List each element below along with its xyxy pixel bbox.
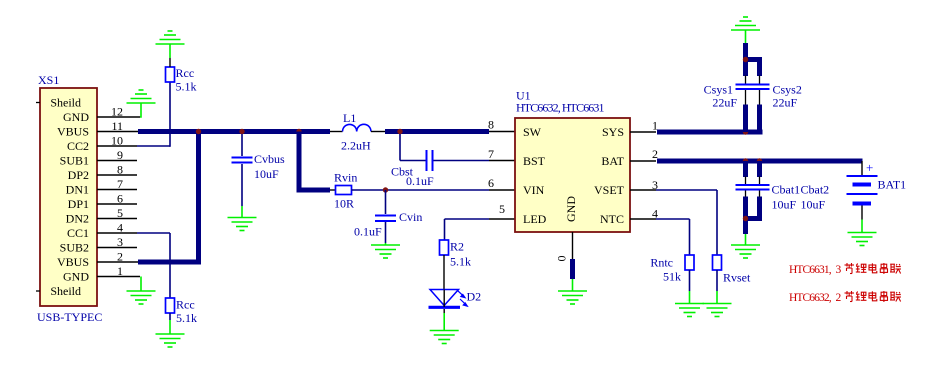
svg-text:Cvbus: Cvbus (254, 152, 285, 166)
ground chip GND (558, 291, 587, 304)
resistor Rvset (713, 255, 722, 270)
wire Rvin left lead (330, 189, 336, 191)
wire VSET net (656, 190, 717, 255)
wire D2 to ground (443, 309, 445, 331)
wire Cbat ground stem (745, 234, 747, 245)
note HTC6631 3-cell (red) (789, 263, 901, 276)
ground Cbat (731, 245, 760, 258)
capacitor Cbst (427, 150, 433, 171)
wire chip GND pin (572, 232, 574, 279)
wire Cbat top stubs (thick) (746, 161, 760, 177)
label 22uF left (712, 96, 737, 110)
label Rvin (334, 171, 357, 185)
resistor Rvin (336, 186, 352, 195)
svg-text:10: 10 (111, 134, 123, 148)
label GND pin (rotated) (564, 196, 578, 222)
label 51k (663, 270, 681, 284)
junction VBUS/VIN branch (296, 129, 301, 134)
svg-text:22uF: 22uF (773, 96, 798, 110)
svg-text:VIN: VIN (523, 183, 545, 197)
label 22uF right (773, 96, 798, 110)
svg-text:5.1k: 5.1k (176, 311, 197, 325)
label 5.1k bottom (176, 311, 197, 325)
svg-text:BST: BST (523, 154, 546, 168)
capacitor Cvbus (232, 158, 253, 163)
label Cbat1 Cbat2 (772, 183, 830, 197)
svg-text:L1: L1 (343, 111, 356, 125)
junction VBUS/pin2 riser (196, 129, 201, 134)
wire Rcc1 to ground (169, 44, 171, 67)
wire SYS (thick) (657, 130, 763, 135)
svg-text:SW: SW (523, 125, 542, 139)
svg-text:2.2uH: 2.2uH (341, 139, 371, 153)
svg-text:D2: D2 (467, 290, 482, 304)
svg-text:9: 9 (117, 148, 123, 162)
svg-text:11: 11 (111, 119, 123, 133)
label battery plus (866, 160, 873, 175)
ground Rvset (703, 304, 732, 317)
wire Rcc2 to ground (169, 313, 171, 334)
svg-text:6: 6 (488, 176, 494, 190)
svg-text:Cbat2: Cbat2 (801, 183, 830, 197)
wire VBUS bus (thick) (138, 129, 330, 134)
resistor Rcc (top) (166, 67, 175, 82)
battery BAT1 (847, 176, 878, 204)
wire Rvin to VIN pin (352, 189, 516, 191)
wire Rcc1 vertical below (169, 81, 171, 147)
wire Cbat leads (746, 177, 760, 198)
wire Cbst to BST pin (434, 160, 516, 162)
svg-text:Cbat1: Cbat1 (772, 183, 801, 197)
svg-text:Rcc: Rcc (176, 66, 195, 80)
svg-text:R2: R2 (450, 240, 464, 254)
svg-text:7: 7 (488, 147, 494, 161)
svg-text:DP1: DP1 (68, 197, 89, 211)
junction SW/Cbst (397, 129, 402, 134)
junction VBUS/Cvbus (239, 129, 244, 134)
wire Cvin bottom (385, 222, 387, 245)
wire L1 right lead (371, 131, 385, 133)
svg-text:8: 8 (117, 163, 123, 177)
svg-text:+: + (866, 160, 873, 175)
label 5.1k R2 (450, 255, 471, 269)
svg-text:HTC6632, HTC6631: HTC6632, HTC6631 (516, 101, 605, 115)
svg-text:SUB2: SUB2 (60, 241, 89, 255)
label Csys1 (704, 83, 733, 97)
svg-text:3: 3 (836, 264, 842, 276)
svg-text:LED: LED (523, 212, 547, 226)
wire battery riser (861, 161, 863, 175)
wire SW stub to chip (489, 131, 515, 133)
svg-text:10uF: 10uF (772, 198, 797, 212)
label L1 (343, 111, 356, 125)
capacitor Csys1 Csys2 plates (736, 85, 770, 90)
svg-text:0: 0 (555, 256, 569, 262)
svg-text:Rcc: Rcc (176, 298, 195, 312)
junction Csys top (743, 57, 748, 62)
label Csys2 (773, 83, 802, 97)
wire Cvbus bottom (241, 164, 243, 218)
svg-text:Csys2: Csys2 (773, 83, 802, 97)
label Rvset (723, 271, 751, 285)
wire Rvset to ground (716, 270, 718, 304)
label pin 0 (rotated) (555, 256, 569, 262)
svg-text:DP2: DP2 (68, 168, 89, 182)
connector pin names (50, 96, 89, 299)
svg-text:BAT: BAT (601, 154, 624, 168)
svg-text:0.1uF: 0.1uF (406, 174, 434, 188)
ground Cvbus (228, 218, 257, 231)
svg-text:12: 12 (111, 105, 123, 119)
junction VIN/Cvin (383, 187, 388, 192)
wire Csys top stem (745, 30, 747, 43)
label Rntc (650, 256, 673, 270)
label Cbst (391, 165, 414, 179)
chip right pin stubs (630, 132, 656, 219)
wire battery to ground (861, 206, 863, 233)
label BAT1 (878, 178, 907, 192)
svg-text:10uF: 10uF (801, 198, 826, 212)
svg-text:5.1k: 5.1k (176, 80, 197, 94)
resistor Rntc (685, 255, 694, 270)
svg-text:0.1uF: 0.1uF (354, 225, 382, 239)
ground pin 12 (inverted) (127, 90, 156, 103)
ground battery (848, 233, 877, 246)
ground Csys top (inverted) (731, 17, 760, 30)
IC U1 body (HTC6632/HTC6631 charger) (515, 118, 630, 232)
label XS1 designator (38, 73, 59, 87)
svg-text:HTC6631,: HTC6631, (789, 264, 832, 276)
svg-text:10R: 10R (334, 197, 354, 211)
label Cvin (399, 210, 422, 224)
label U1 designator (516, 89, 531, 103)
resistor Rcc (bottom) (166, 298, 175, 313)
wire Csys bottom (thick) (746, 105, 760, 133)
svg-text:Rntc: Rntc (650, 256, 673, 270)
svg-text:7: 7 (117, 177, 123, 191)
label D2 (467, 290, 482, 304)
ground below Rcc2 (156, 334, 185, 347)
label Cvbus (254, 152, 285, 166)
wire BAT (thick) (657, 159, 863, 164)
label HTC6632, HTC6631 (516, 101, 605, 115)
svg-text:5: 5 (117, 206, 123, 220)
label 2.2uH (341, 139, 371, 153)
label 0.1uF Cbst (406, 174, 434, 188)
svg-text:NTC: NTC (600, 212, 624, 226)
label 0.1uF Cvin (354, 225, 382, 239)
inductor L1 (343, 124, 372, 131)
svg-text:4: 4 (117, 221, 123, 235)
wire Csys1 leads (745, 76, 747, 106)
label 10R (334, 197, 354, 211)
junction BAT/Cbat1 (743, 158, 748, 163)
ground D2 (430, 331, 459, 344)
connector pin stubs and pin numbers 1-12 (97, 105, 140, 279)
svg-text:GND: GND (63, 110, 89, 124)
svg-text:CC2: CC2 (67, 139, 89, 153)
wire Cbat bottom (thick) (743, 197, 762, 235)
wire NTC net (656, 219, 690, 255)
label 10uF Cvbus (254, 167, 279, 181)
svg-text:5.1k: 5.1k (450, 255, 471, 269)
ground pin 1 (127, 291, 156, 304)
note HTC6632 2-cell (red) (789, 291, 901, 304)
label USB-TYPEC (37, 310, 102, 324)
svg-text:GND: GND (63, 270, 89, 284)
svg-text:10uF: 10uF (254, 167, 279, 181)
wire CC1 to Rcc2 (137, 233, 170, 298)
capacitor Cbat1 Cbat2 plates (736, 185, 770, 190)
ground above Rcc (inverted) (156, 31, 185, 44)
wire R2 top (444, 219, 446, 240)
pin numbers 1,2,3,4 (652, 119, 658, 221)
wire pin1 ground stem (140, 277, 142, 292)
wire SW (thick) (385, 129, 489, 134)
svg-text:SYS: SYS (602, 125, 624, 139)
capacitor Cvin (375, 216, 396, 222)
svg-text:XS1: XS1 (38, 73, 59, 87)
junction BAT/Cbat2 (757, 158, 762, 163)
svg-text:DN1: DN1 (66, 183, 89, 197)
svg-text:22uF: 22uF (712, 96, 737, 110)
wire GND stem (572, 279, 574, 291)
svg-text:USB-TYPEC: USB-TYPEC (37, 310, 102, 324)
pin numbers 8,7,6,5 (488, 118, 505, 217)
wire Rntc to ground (689, 270, 691, 304)
ground Rntc (675, 304, 704, 317)
wire LED pin (445, 218, 516, 220)
svg-text:51k: 51k (663, 270, 681, 284)
svg-text:Cvin: Cvin (399, 210, 422, 224)
svg-text:VSET: VSET (594, 183, 625, 197)
svg-text:GND: GND (564, 196, 578, 222)
svg-text:5: 5 (499, 202, 505, 216)
junction Cbat bottom (743, 216, 748, 221)
svg-text:2: 2 (117, 250, 123, 264)
svg-text:HTC6632,: HTC6632, (789, 292, 832, 304)
wire pin12 to ground (140, 104, 141, 118)
svg-text:DN2: DN2 (66, 212, 89, 226)
connector XS1 body (USB-TYPEC) (40, 88, 97, 306)
svg-text:Rvset: Rvset (723, 271, 751, 285)
chip pin names (523, 125, 625, 226)
resistor R2 (440, 240, 449, 255)
wire VBUS from pin 2 (thick L) (138, 130, 201, 265)
wire VIN branch (thick) (297, 132, 331, 191)
svg-text:CC1: CC1 (67, 226, 89, 240)
svg-text:BAT1: BAT1 (878, 178, 907, 192)
svg-text:6: 6 (117, 192, 123, 206)
svg-text:Sheild: Sheild (50, 284, 81, 298)
wire Csys2 leads (759, 76, 761, 106)
wire Csys top network (thick) (743, 43, 762, 76)
wire Cbst left (400, 134, 426, 161)
label R2 (450, 240, 464, 254)
junction SYS/Csys (743, 129, 748, 134)
wire L1 left lead (330, 131, 343, 133)
svg-text:8: 8 (488, 118, 494, 132)
wire CC2 to Rcc (137, 145, 170, 147)
label 10uF 10uF (772, 198, 826, 212)
svg-text:VBUS: VBUS (57, 255, 89, 269)
svg-text:2: 2 (836, 292, 842, 304)
svg-text:SUB1: SUB1 (60, 154, 89, 168)
svg-text:1: 1 (117, 264, 123, 278)
svg-text:VBUS: VBUS (57, 125, 89, 139)
wire Cvbus top (241, 134, 243, 156)
label 5.1k top (176, 80, 197, 94)
left shield ticks (36, 103, 40, 292)
svg-text:Rvin: Rvin (334, 171, 357, 185)
LED D2 (429, 290, 468, 308)
wire R2 to D2 (443, 255, 445, 290)
ground Cvin (371, 245, 400, 258)
svg-text:Csys1: Csys1 (704, 83, 733, 97)
wire Cvin top (385, 190, 387, 214)
label Rcc bottom (176, 298, 195, 312)
svg-text:3: 3 (117, 235, 123, 249)
svg-text:Sheild: Sheild (50, 96, 81, 110)
label Rcc top (176, 66, 195, 80)
